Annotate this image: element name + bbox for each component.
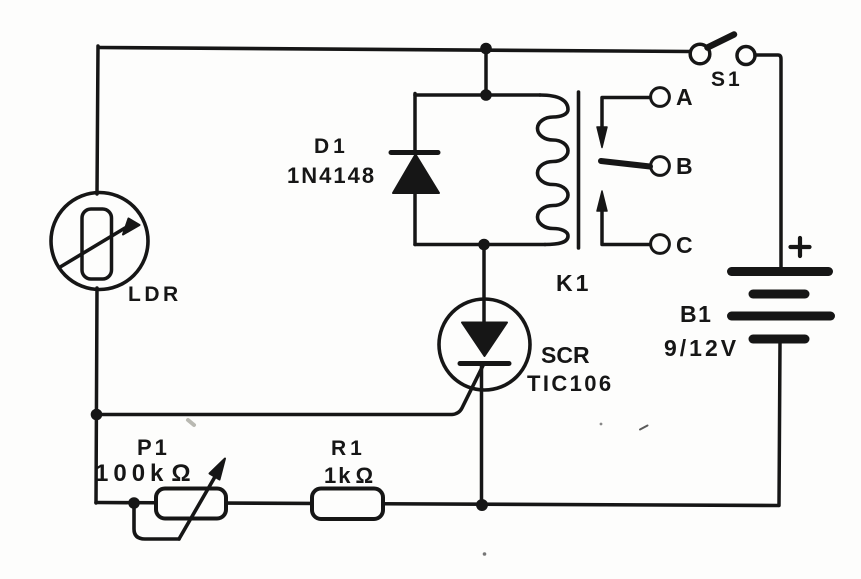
- svg-text:SCR: SCR: [541, 342, 590, 368]
- svg-text:B1: B1: [680, 301, 712, 327]
- wire relay bottom (diode to coil): [415, 243, 545, 247]
- battery B1: [732, 272, 831, 340]
- svg-text:K1: K1: [556, 270, 591, 296]
- scan speck: [640, 426, 648, 430]
- label 1N4148: [287, 163, 376, 188]
- relay K1 contact C: [597, 191, 669, 253]
- svg-text:D1: D1: [314, 135, 349, 158]
- wire left rail lower (LDR to bottom rail): [96, 288, 97, 503]
- svg-text:A: A: [676, 84, 693, 110]
- svg-text:100kΩ: 100kΩ: [95, 460, 196, 487]
- label K1: [556, 270, 591, 296]
- resistor R1 body: [312, 489, 383, 520]
- relay K1 contact A: [597, 88, 669, 148]
- svg-text:9/12V: 9/12V: [664, 335, 739, 361]
- svg-text:TIC106: TIC106: [527, 371, 614, 396]
- label D1: [314, 135, 349, 158]
- potentiometer P1 body: [156, 459, 226, 540]
- node junction top rail / relay drop: [480, 43, 492, 55]
- label A: [676, 84, 693, 110]
- label B: [676, 153, 693, 179]
- node junction left rail / gate run: [91, 409, 103, 421]
- wire relay top (diode to coil): [415, 93, 540, 97]
- label S1: [711, 68, 743, 91]
- svg-text:R1: R1: [331, 437, 366, 460]
- label + polarity: [791, 238, 810, 256]
- relay K1 armature contact B: [601, 157, 669, 176]
- label SCR: [541, 342, 590, 368]
- svg-text:1N4148: 1N4148: [287, 163, 376, 188]
- label P1: [137, 435, 170, 460]
- svg-text:1kΩ: 1kΩ: [324, 463, 375, 488]
- label 100k ohm: [95, 460, 196, 487]
- LDR photoresistor: [51, 193, 148, 290]
- node junction bottom rail / SCR cathode: [476, 499, 488, 511]
- svg-text:P1: P1: [137, 435, 170, 460]
- wire drop from top rail to relay top: [484, 48, 488, 95]
- switch S1: [690, 35, 755, 65]
- relay K1 core bar: [577, 92, 581, 248]
- label B1: [680, 301, 712, 327]
- svg-text:LDR: LDR: [128, 283, 182, 306]
- relay K1 coil: [537, 95, 568, 245]
- label TIC106: [527, 371, 614, 396]
- wire SCR cathode to bottom rail: [480, 366, 484, 505]
- wire left rail upper (top rail to LDR): [97, 46, 98, 194]
- svg-text:S1: S1: [711, 68, 743, 91]
- label R1: [331, 437, 366, 460]
- scan speck: [600, 423, 603, 426]
- svg-text:C: C: [676, 232, 693, 258]
- wire right rail lower (battery - to bottom rail): [779, 343, 780, 506]
- svg-text:B: B: [676, 153, 693, 179]
- node junction bottom rail / P1 wiper loop: [128, 497, 140, 509]
- diode D1: [391, 94, 439, 245]
- wire top rail: [99, 48, 690, 52]
- wire relay bottom to SCR anode: [482, 245, 486, 324]
- label 9/12V: [664, 335, 739, 361]
- label C: [676, 232, 693, 258]
- wire right rail upper (S1 to battery +): [755, 55, 781, 267]
- label LDR: [128, 283, 182, 306]
- wire bottom rail: [96, 503, 778, 506]
- scan speck: [188, 420, 194, 425]
- scan speck: [483, 552, 487, 556]
- label 1k ohm: [324, 463, 375, 488]
- node junction relay bottom: [478, 239, 490, 251]
- wire SCR gate run: [97, 364, 484, 415]
- node junction relay top: [480, 89, 492, 101]
- wire P1 wiper loop: [134, 504, 179, 539]
- SCR Q1 TIC106: [439, 299, 530, 390]
